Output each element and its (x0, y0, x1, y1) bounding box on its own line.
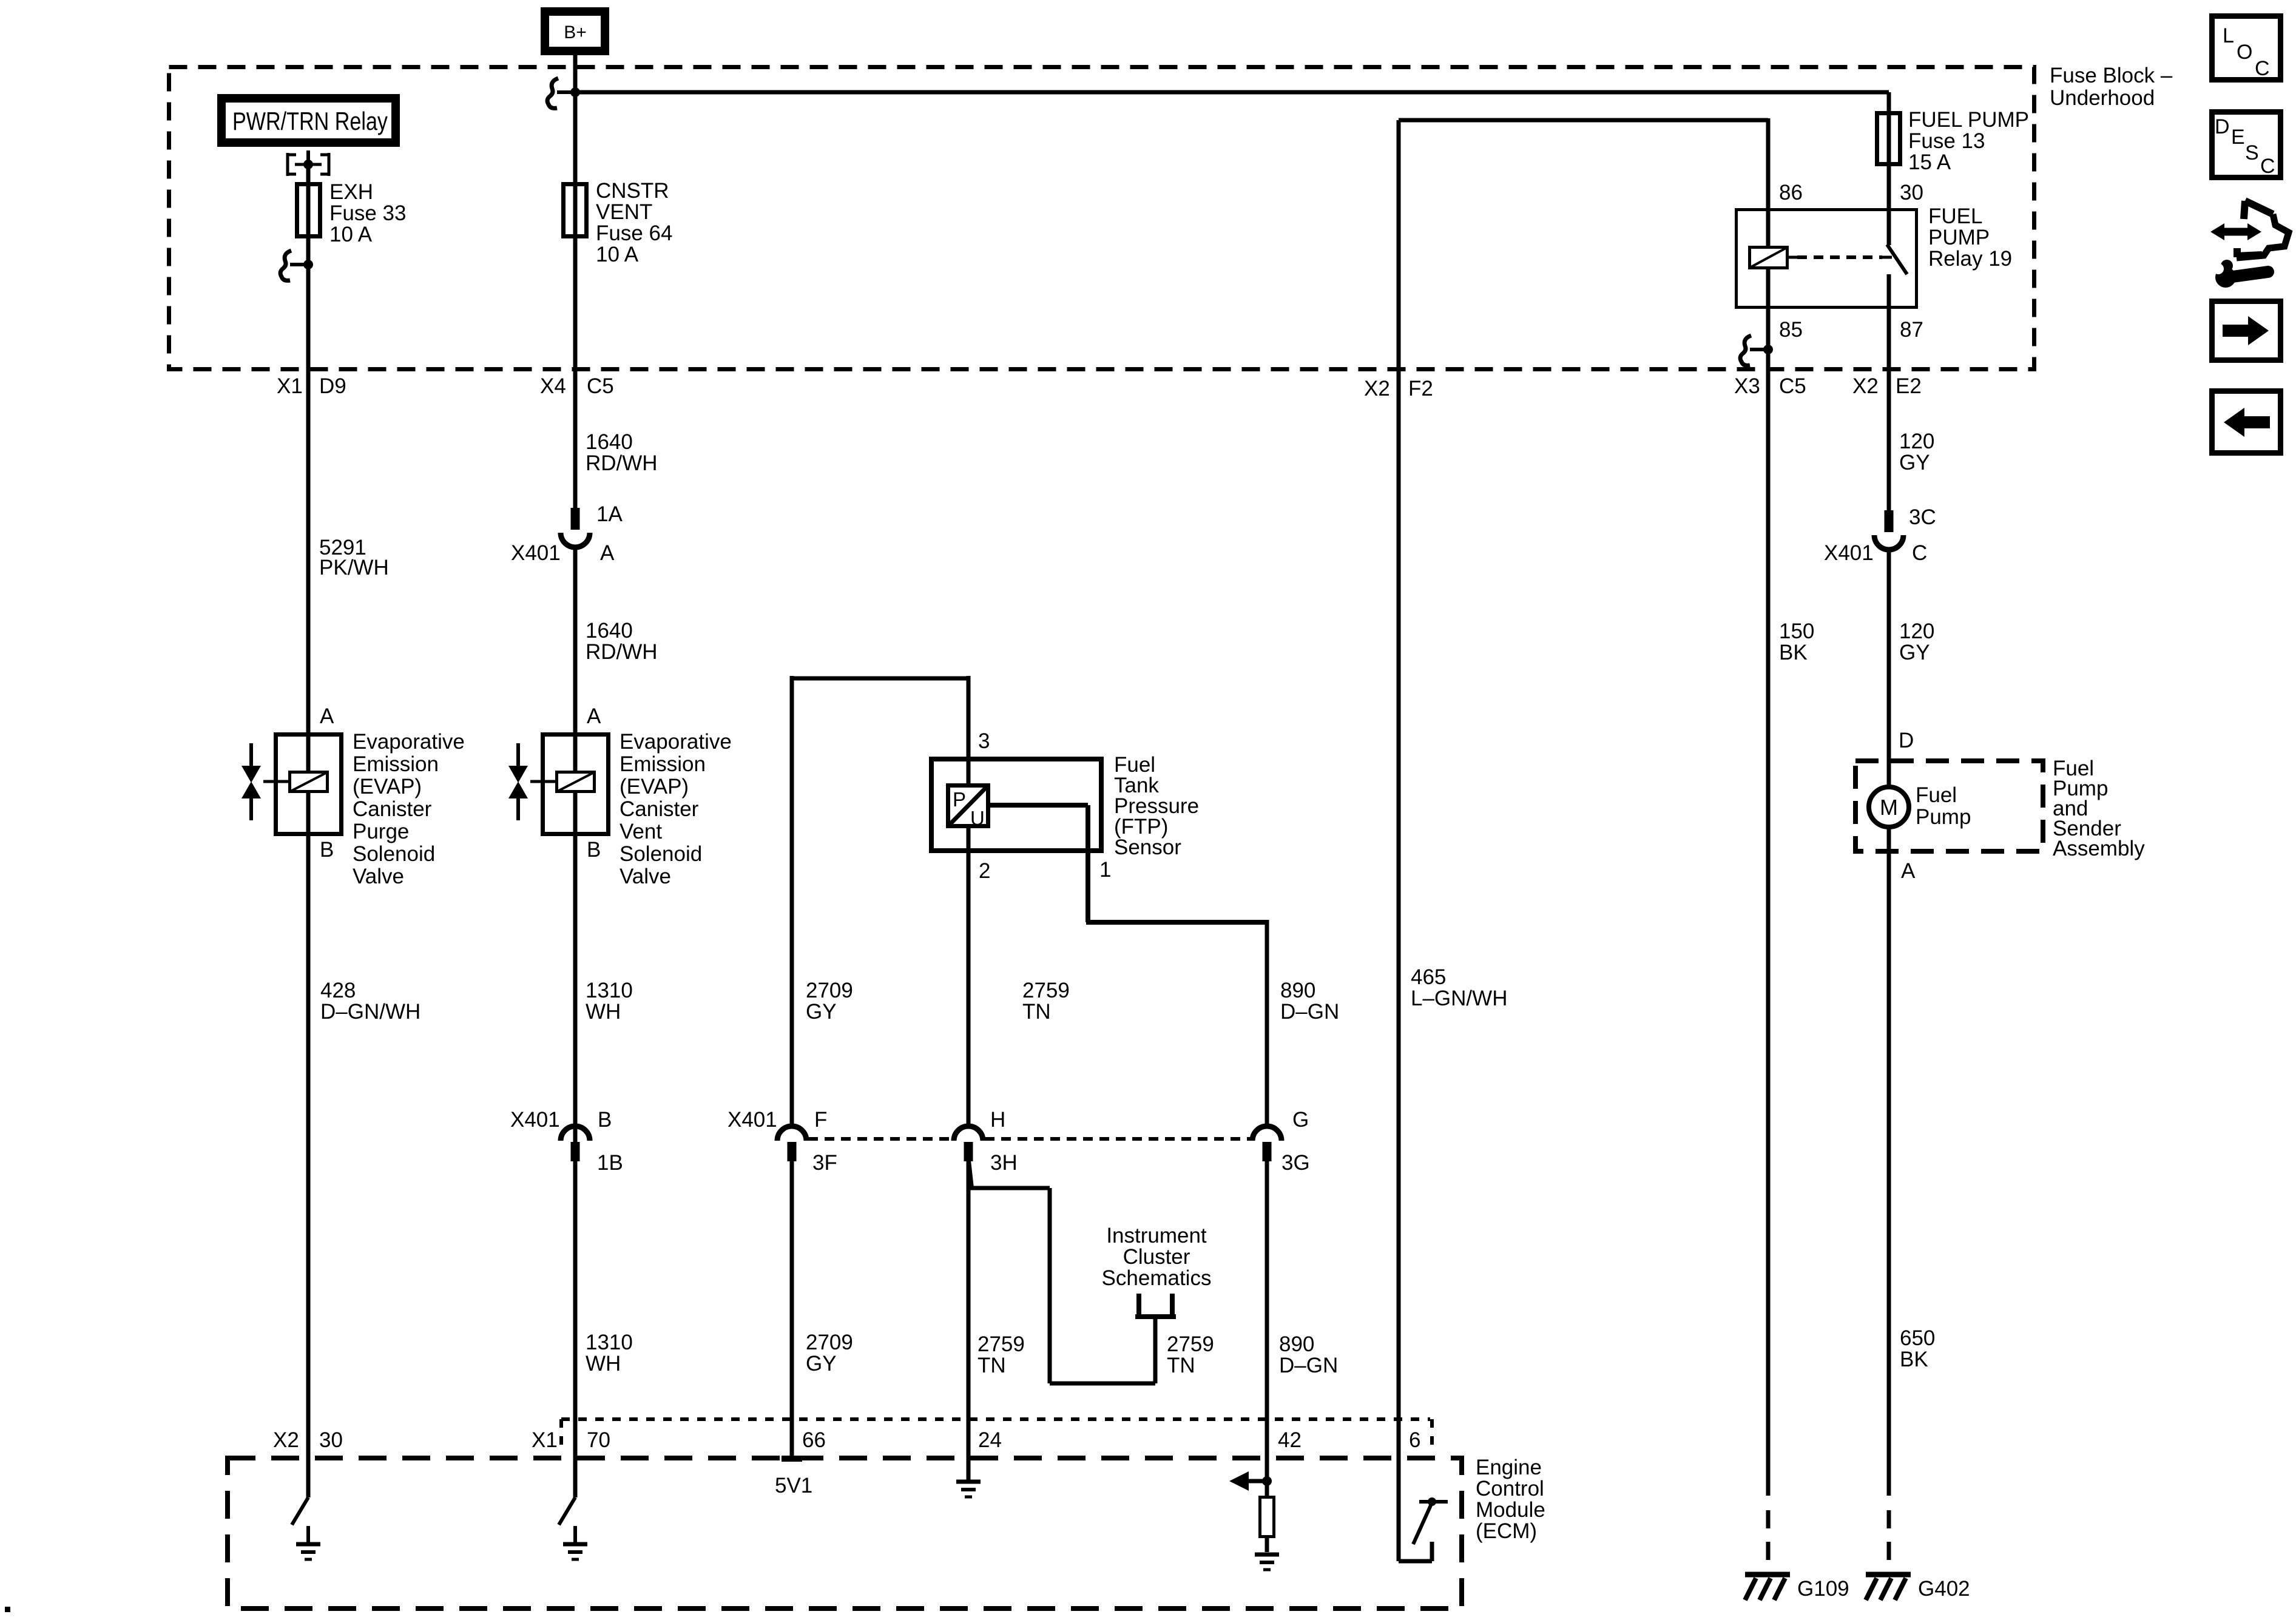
svg-text:Relay 19: Relay 19 (1928, 247, 2012, 271)
label Fuse Block - Underhood (2050, 64, 2173, 110)
svg-text:C: C (2260, 155, 2275, 178)
svg-text:Canister: Canister (620, 797, 699, 821)
relay coil (1750, 248, 1788, 268)
svg-text:PUMP: PUMP (1928, 226, 1990, 249)
svg-text:Vent: Vent (620, 820, 662, 843)
wire FTP output U to pin 1 (990, 805, 1088, 922)
svg-text:Canister: Canister (353, 797, 432, 821)
label FUEL PUMP Fuse 13 15A (1908, 108, 2029, 174)
svg-text:X3: X3 (1734, 374, 1760, 398)
junction node below EXH fuse (303, 260, 313, 269)
label Fuel Pump and Sender Assembly (2053, 757, 2145, 860)
svg-text:CNSTR: CNSTR (596, 179, 669, 203)
svg-text:L: L (2223, 24, 2234, 47)
purge valve symbol (check valve triangles) (241, 743, 261, 820)
fuse FUEL PUMP Fuse 13 15A (1877, 113, 1900, 164)
wire label 1640 RD/WH lower (586, 619, 658, 664)
svg-text:15 A: 15 A (1908, 150, 1951, 174)
EVAP canister purge solenoid valve box (276, 735, 342, 834)
fuse block underhood dashed box (169, 67, 2034, 370)
wire 86 feed horizontal (1399, 118, 1768, 123)
svg-text:G402: G402 (1918, 1577, 1970, 1601)
splice S-hook at relay pin 85 (1740, 336, 1764, 365)
svg-text:10 A: 10 A (596, 243, 639, 266)
svg-text:D–GN/WH: D–GN/WH (320, 1000, 420, 1024)
svg-text:1B: 1B (597, 1151, 623, 1175)
wire X401 C to fuel pump (1887, 548, 1891, 787)
wire branch 2759 TN to instrument cluster (968, 1155, 1155, 1383)
svg-text:42: 42 (1278, 1428, 1302, 1452)
svg-text:3G: 3G (1281, 1151, 1310, 1175)
relay FUEL PUMP Relay 19 box (1737, 210, 1917, 308)
svg-text:F: F (814, 1108, 827, 1132)
svg-text:X2: X2 (1364, 377, 1390, 400)
svg-text:24: 24 (978, 1428, 1002, 1452)
bus bar horizontal wire (573, 90, 1889, 95)
splice S-hook at B+ junction (547, 78, 572, 108)
purge valve coil (290, 772, 328, 792)
ECM switch pin 6 (1399, 1497, 1448, 1561)
chassis ground G402 (1866, 1575, 1911, 1600)
svg-text:Emission: Emission (353, 752, 439, 776)
chassis ground G109 (1745, 1575, 1790, 1600)
junction node below PWR/TRN relay (303, 160, 313, 169)
svg-text:G109: G109 (1797, 1577, 1849, 1601)
fuel pump and sender assembly dashed box (1855, 761, 2043, 851)
svg-text:D: D (2215, 115, 2230, 138)
wire relay pin 85 down to X3 C5 (1766, 269, 1771, 1496)
fuse EXH Fuse 33 10A (297, 184, 320, 237)
svg-text:GY: GY (1899, 451, 1930, 474)
label Instrument Cluster Schematics (1102, 1224, 1212, 1290)
svg-text:465: 465 (1411, 965, 1446, 989)
ECM X1 connector dotted line (561, 1419, 1432, 1451)
wire label 1310 WH upper (586, 979, 633, 1024)
label Fuel Tank Pressure (FTP) Sensor (1114, 753, 1199, 859)
dashed ground lead G109 (1766, 1510, 1771, 1572)
connector X401 pin H inline (3H) (954, 1126, 983, 1161)
svg-text:FUEL: FUEL (1928, 204, 1982, 228)
label Fuel Pump (motor) (1916, 783, 1971, 829)
FTP P/U transducer box (948, 786, 988, 830)
wire label 465 L-GN/WH (1411, 965, 1507, 1010)
svg-text:B: B (598, 1108, 612, 1132)
connector X401 pin G inline (3G) (1252, 1126, 1281, 1161)
svg-text:(ECM): (ECM) (1476, 1519, 1537, 1543)
ECM dashed box (228, 1458, 1462, 1609)
wire fuel pump to G402 (1887, 827, 1891, 1496)
wire label 2759 TN lower right (1167, 1332, 1214, 1377)
svg-text:1: 1 (1099, 858, 1111, 882)
label Engine Control Module (ECM) (1476, 1456, 1545, 1543)
svg-text:PWR/TRN Relay: PWR/TRN Relay (232, 107, 388, 135)
wire label 1640 RD/WH upper (586, 430, 658, 475)
svg-text:D–GN: D–GN (1280, 1000, 1339, 1024)
svg-text:M: M (1880, 795, 1898, 820)
label FUEL PUMP Relay 19 (1928, 204, 2012, 271)
label EXH Fuse 33 10A (329, 180, 406, 246)
svg-text:A: A (600, 541, 615, 565)
relay switch blade 30-87 (1887, 245, 1907, 274)
svg-text:Sensor: Sensor (1114, 836, 1181, 859)
svg-text:120: 120 (1899, 619, 1934, 643)
connector X401 pin C inline (3C) (1874, 510, 1903, 550)
svg-text:Pump: Pump (1916, 805, 1971, 829)
label Evaporative Emission (EVAP) Canister Purge Solenoid Valve (353, 730, 465, 888)
svg-text:U: U (970, 807, 985, 829)
svg-text:Underhood: Underhood (2050, 86, 2155, 110)
svg-text:BK: BK (1900, 1348, 1928, 1371)
svg-text:3F: 3F (812, 1151, 837, 1175)
wire label 5291 PK/WH (319, 536, 389, 579)
svg-text:GY: GY (806, 1000, 837, 1024)
svg-text:X401: X401 (728, 1108, 777, 1132)
svg-text:Assembly: Assembly (2053, 837, 2145, 860)
svg-text:GY: GY (806, 1352, 837, 1376)
svg-text:Solenoid: Solenoid (620, 842, 702, 866)
svg-text:C: C (2255, 57, 2270, 80)
svg-text:650: 650 (1900, 1326, 1935, 1350)
icon box LOC (2212, 16, 2281, 81)
wire 2759 TN to ECM pin 24 (967, 1161, 971, 1481)
svg-text:5V1: 5V1 (775, 1474, 812, 1497)
wire label 2709 GY lower (806, 1331, 853, 1376)
svg-text:3: 3 (978, 729, 990, 753)
splice S-hook below EXH fuse (280, 251, 305, 280)
purge valve coil stub (263, 780, 288, 783)
wire pin 1 jog to 890 D-GN drop (1086, 920, 1267, 1126)
svg-text:Instrument: Instrument (1106, 1224, 1207, 1247)
wire label 890 D-GN lower (1279, 1332, 1338, 1377)
svg-text:X2: X2 (1852, 374, 1879, 398)
wire relay pin 87 down to X2 E2 (1887, 274, 1891, 510)
ECM pull-down resistor pin 42 (1260, 1481, 1274, 1552)
connector label X3 C5 (1734, 374, 1806, 398)
vent valve coil (557, 772, 595, 792)
svg-text:150: 150 (1779, 619, 1814, 643)
wire relay to EXH fuse (306, 164, 311, 1497)
wire label 150 BK (1779, 619, 1814, 664)
ECM ground pin 24 (956, 1482, 981, 1497)
svg-text:Module: Module (1476, 1498, 1545, 1522)
svg-text:A: A (1901, 859, 1916, 883)
svg-text:2709: 2709 (806, 979, 853, 1002)
svg-text:D9: D9 (319, 374, 346, 398)
X401 connector dashed bar H-G (985, 1137, 1251, 1141)
svg-text:BK: BK (1779, 641, 1808, 664)
icon box right arrow (2212, 302, 2281, 360)
svg-text:1310: 1310 (586, 1331, 633, 1354)
connector label X4 C5 (540, 374, 614, 398)
svg-text:X1: X1 (532, 1428, 558, 1452)
svg-text:3C: 3C (1909, 505, 1936, 529)
ECM pin label X2 30 (273, 1428, 343, 1452)
wire FTP pin 2 vertical (967, 828, 971, 1126)
svg-text:TN: TN (1022, 1000, 1051, 1024)
icon wrench with double arrow (2210, 201, 2289, 288)
EVAP canister vent solenoid valve box (543, 735, 609, 834)
wire label 2759 TN upper (1022, 979, 1070, 1024)
wire label 120 GY upper (1899, 430, 1934, 474)
svg-text:EXH: EXH (329, 180, 373, 204)
icon box left arrow (2212, 391, 2281, 453)
svg-text:TN: TN (977, 1354, 1006, 1377)
svg-text:WH: WH (586, 1000, 621, 1024)
svg-text:PK/WH: PK/WH (319, 556, 389, 579)
svg-text:890: 890 (1279, 1332, 1314, 1356)
wire label 2759 TN lower left (977, 1332, 1025, 1377)
svg-text:L–GN/WH: L–GN/WH (1411, 987, 1507, 1010)
wire label 1310 WH lower (586, 1331, 633, 1376)
svg-text:Evaporative: Evaporative (620, 730, 732, 754)
relay terminal bracket (288, 150, 329, 176)
svg-text:2709: 2709 (806, 1331, 853, 1354)
svg-text:X401: X401 (511, 541, 561, 565)
FTP sensor box (931, 759, 1101, 851)
svg-text:30: 30 (1900, 181, 1923, 204)
fuse CNSTR VENT Fuse 64 10A (564, 184, 587, 237)
svg-text:B: B (320, 838, 334, 862)
svg-text:2759: 2759 (1167, 1332, 1214, 1356)
ECM pin label X1 70 (532, 1428, 610, 1452)
svg-text:Fuse 64: Fuse 64 (596, 221, 672, 245)
svg-text:A: A (587, 704, 601, 728)
X401 connector dashed bar F-H (808, 1137, 952, 1141)
wire label 120 GY lower (1899, 619, 1934, 664)
svg-text:Fuse 13: Fuse 13 (1908, 129, 1985, 153)
wire FTP pin 3 vertical (967, 676, 971, 785)
svg-text:890: 890 (1280, 979, 1315, 1002)
svg-text:X4: X4 (540, 374, 566, 398)
svg-text:Schematics: Schematics (1102, 1266, 1212, 1290)
ECM resistor ground (1255, 1555, 1279, 1570)
wire relay pin 86 vertical (1766, 118, 1771, 246)
svg-text:B+: B+ (564, 22, 587, 42)
power symbol B+ (545, 12, 605, 51)
wire B+ to bus (573, 55, 578, 92)
vent valve coil stub (530, 780, 555, 783)
connector label X1 D9 (277, 374, 346, 398)
svg-text:Fuse Block –: Fuse Block – (2050, 64, 2173, 87)
svg-text:TN: TN (1167, 1354, 1195, 1377)
svg-text:RD/WH: RD/WH (586, 451, 658, 475)
svg-text:Emission: Emission (620, 752, 706, 776)
svg-text:D–GN: D–GN (1279, 1354, 1338, 1377)
label Evaporative Emission (EVAP) Canister Vent Solenoid Valve (620, 730, 732, 888)
connector X401 pin B inline (1B) (561, 1126, 590, 1161)
svg-text:6: 6 (1409, 1428, 1420, 1452)
svg-text:X1: X1 (277, 374, 303, 398)
svg-text:H: H (990, 1108, 1005, 1132)
relay coil to contact dashed link (1789, 256, 1892, 259)
wire X401 A to EVAP vent valve (573, 545, 578, 1497)
svg-text:120: 120 (1899, 430, 1934, 453)
svg-text:B: B (587, 838, 601, 862)
svg-text:FUEL PUMP: FUEL PUMP (1908, 108, 2029, 132)
svg-text:428: 428 (320, 979, 356, 1002)
svg-text:2: 2 (979, 859, 990, 883)
junction node at B+ bus (570, 87, 580, 97)
dashed ground lead G402 (1887, 1510, 1891, 1572)
svg-text:VENT: VENT (596, 200, 652, 224)
svg-text:66: 66 (802, 1428, 826, 1452)
svg-text:Cluster: Cluster (1123, 1245, 1190, 1269)
wire label 650 BK (1900, 1326, 1935, 1371)
svg-text:Evaporative: Evaporative (353, 730, 465, 754)
svg-text:(EVAP): (EVAP) (353, 775, 422, 798)
svg-text:P: P (953, 788, 966, 811)
wire label 2709 GY upper (806, 979, 853, 1024)
svg-text:F2: F2 (1408, 377, 1433, 400)
icon box DESC (2212, 112, 2281, 178)
wire 890 D-GN to ECM pin 42 (1265, 1161, 1269, 1481)
wire bus down to FUEL PUMP fuse (1887, 92, 1891, 245)
svg-text:X2: X2 (273, 1428, 299, 1452)
wire label 890 D-GN upper (1280, 979, 1339, 1024)
svg-text:G: G (1292, 1108, 1309, 1132)
ECM switch to ground pin 30 (292, 1497, 320, 1559)
svg-text:E2: E2 (1896, 374, 1922, 398)
svg-text:3H: 3H (990, 1151, 1018, 1175)
svg-text:Fuse 33: Fuse 33 (329, 201, 406, 225)
svg-text:S: S (2245, 141, 2259, 164)
svg-text:70: 70 (587, 1428, 610, 1452)
svg-text:87: 87 (1900, 318, 1923, 342)
svg-text:1640: 1640 (586, 430, 633, 454)
svg-text:A: A (320, 704, 334, 728)
svg-text:C5: C5 (1779, 374, 1806, 398)
ECM pin 42 arrow and junction (1229, 1471, 1272, 1491)
page artifact dot (5, 1607, 10, 1612)
svg-text:GY: GY (1899, 641, 1930, 664)
svg-text:30: 30 (319, 1428, 343, 1452)
svg-text:C: C (1912, 541, 1927, 565)
svg-text:2759: 2759 (977, 1332, 1025, 1356)
svg-text:Valve: Valve (620, 865, 671, 888)
svg-text:(EVAP): (EVAP) (620, 775, 689, 798)
junction node relay 85 wire (1763, 345, 1773, 354)
svg-text:Engine: Engine (1476, 1456, 1542, 1479)
svg-text:86: 86 (1779, 181, 1803, 204)
svg-text:WH: WH (586, 1352, 621, 1376)
svg-text:RD/WH: RD/WH (586, 640, 658, 664)
svg-text:Fuel: Fuel (1916, 783, 1957, 807)
wire FTP loop horizontal top (792, 677, 968, 681)
connector X401 pin A inline (1A) (561, 508, 590, 547)
svg-text:Purge: Purge (353, 820, 409, 843)
svg-text:E: E (2231, 126, 2245, 149)
wire 2709 GY vertical (X401 F) (790, 676, 794, 1126)
svg-text:1A: 1A (596, 502, 623, 526)
off-page connector bracket to instrument cluster (1135, 1294, 1176, 1317)
svg-text:Valve: Valve (353, 865, 404, 888)
vent valve symbol (check valve triangles) (508, 743, 528, 820)
svg-text:X401: X401 (510, 1108, 560, 1132)
wire B+ bus to CNSTR VENT fuse and down (X4 C5) (573, 92, 578, 508)
svg-text:D: D (1899, 729, 1914, 752)
wire label 428 D-GN/WH (320, 979, 420, 1024)
svg-text:10 A: 10 A (329, 223, 373, 246)
svg-text:X401: X401 (1824, 541, 1874, 565)
ECM switch to ground pin 70 (559, 1497, 587, 1559)
relay PWR/TRN Relay (label box) (221, 98, 396, 143)
connector label X2 E2 (1852, 374, 1922, 398)
wire 465 L-GN/WH from bus corner to ECM pin 6 (1397, 120, 1401, 1561)
svg-text:1640: 1640 (586, 619, 633, 643)
svg-text:85: 85 (1779, 318, 1803, 342)
svg-text:O: O (2237, 41, 2252, 64)
svg-text:1310: 1310 (586, 979, 633, 1002)
svg-text:C5: C5 (587, 374, 614, 398)
svg-text:Control: Control (1476, 1477, 1544, 1501)
wire 2709 GY to ECM pin 66 (5V1 terminal) (782, 1161, 802, 1459)
label CNSTR VENT Fuse 64 10A (596, 179, 672, 266)
connector label X2 F2 (1364, 377, 1433, 400)
fuel pump motor M (1869, 787, 1909, 827)
connector X401 pin F inline (3F) (777, 1126, 806, 1161)
svg-text:Solenoid: Solenoid (353, 842, 435, 866)
svg-text:2759: 2759 (1022, 979, 1070, 1002)
